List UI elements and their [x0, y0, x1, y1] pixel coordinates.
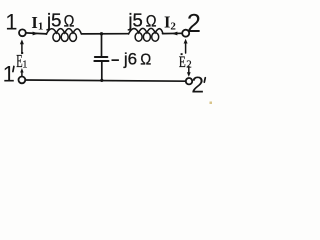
svg-text:1: 1 — [5, 10, 17, 35]
svg-text:1: 1 — [3, 61, 15, 86]
terminal 1' — [19, 77, 26, 84]
svg-text:j6: j6 — [123, 49, 137, 68]
svg-text:E: E — [179, 54, 186, 71]
terminal 2 — [182, 30, 189, 37]
wire top-left (1 to L1) — [26, 33, 47, 34]
svg-text:I1: I1 — [31, 13, 43, 33]
scan speck (decorative) — [210, 102, 213, 105]
E1 arrowhead lower (up, small) — [20, 68, 23, 73]
E1 voltage arrow upper segment — [21, 44, 23, 54]
E2 voltage arrow lower segment — [188, 66, 190, 72]
inductor L1 coil — [46, 29, 81, 35]
E2 arrowhead top (up) — [184, 39, 188, 44]
E2 arrowhead bottom (down) — [187, 72, 191, 77]
svg-text:Ω: Ω — [146, 11, 157, 30]
I1 current arrowhead — [33, 32, 39, 36]
E1 arrowhead top (up) — [20, 39, 24, 44]
terminal 2' — [186, 78, 192, 84]
svg-text:2: 2 — [187, 10, 201, 38]
svg-text:Ω: Ω — [140, 51, 151, 68]
I2 current arrowhead — [171, 32, 177, 36]
capacitor C bottom plate — [94, 60, 108, 62]
wire bottom (1' to 2') — [25, 80, 186, 81]
svg-text:j5: j5 — [127, 9, 142, 30]
junction top (cap to top wire) — [100, 32, 103, 35]
E1 voltage arrow lower segment — [21, 71, 23, 75]
svg-text:2: 2 — [186, 59, 192, 71]
inductor L2 coil — [129, 28, 164, 34]
capacitor C bottom lead — [101, 62, 103, 81]
capacitor C top lead — [101, 34, 103, 56]
svg-text:I2: I2 — [164, 13, 176, 33]
terminal 1 — [19, 29, 26, 36]
wire top-middle (L1 to L2) — [82, 33, 129, 35]
wire top-right (L2 to 2) — [163, 32, 182, 34]
svg-text:Ω: Ω — [64, 11, 75, 30]
svg-text:2: 2 — [191, 72, 204, 98]
E2 voltage arrow upper segment — [185, 43, 187, 53]
junction bottom (cap to bottom wire) — [100, 79, 103, 82]
label -j6 ohm (C value) — [112, 59, 119, 61]
svg-text:j5: j5 — [46, 9, 61, 30]
svg-text:1: 1 — [22, 60, 27, 71]
capacitor C top plate — [95, 56, 108, 58]
